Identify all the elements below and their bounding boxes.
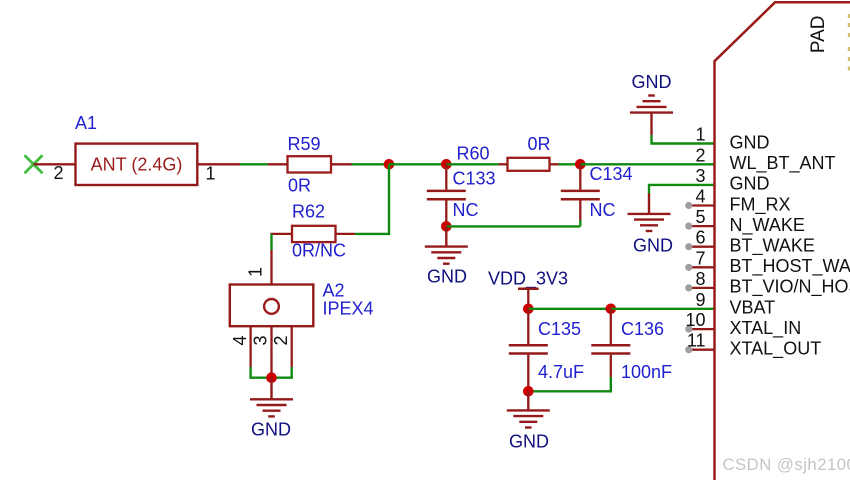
junction E dot (A2 ground) [266, 372, 277, 383]
capacitor C135 bottom lead [527, 355, 529, 392]
junction F dot (C135 top) [523, 304, 534, 315]
wire inverted ground to pin 1 [652, 135, 715, 144]
svg-text:GND: GND [632, 72, 672, 92]
pin 8 stub [689, 287, 715, 289]
junction H dot (C135 bottom) [523, 386, 534, 397]
svg-text:GND: GND [251, 420, 291, 440]
svg-text:CSDN @sjh2100: CSDN @sjh2100 [723, 455, 850, 474]
svg-text:VDD_3V3: VDD_3V3 [488, 269, 568, 290]
capacitor C136 bottom lead [610, 355, 612, 377]
svg-text:WL_BT_ANT: WL_BT_ANT [730, 153, 836, 174]
svg-text:3: 3 [695, 166, 705, 186]
junction B dot (C133 top) [441, 159, 452, 170]
wire C136 top to pin 9 VBAT [611, 308, 715, 310]
pin 10 unconnected dot [685, 326, 692, 333]
svg-text:2: 2 [271, 335, 291, 345]
junction D dot (C133 bottom) [441, 221, 452, 232]
svg-text:PAD: PAD [808, 15, 829, 53]
svg-text:NC: NC [590, 200, 616, 220]
power port VDD_3V3 stem [527, 289, 529, 309]
svg-text:N_WAKE: N_WAKE [730, 215, 805, 236]
wire R60 to junction C [559, 163, 581, 165]
svg-text:10: 10 [685, 310, 705, 330]
capacitor C133 bottom lead [445, 201, 447, 227]
svg-text:0R: 0R [528, 134, 551, 154]
pin 6 unconnected dot [685, 243, 692, 250]
wire junction A to junction B [389, 163, 446, 165]
svg-text:BT_WAKE: BT_WAKE [730, 236, 815, 257]
svg-text:C133: C133 [453, 169, 496, 189]
svg-text:4: 4 [230, 335, 250, 345]
junction A dot [384, 159, 395, 170]
svg-text:BT_VIO/N_HOST: BT_VIO/N_HOST [730, 277, 850, 298]
pin 8 unconnected dot [685, 284, 692, 291]
wire pin 3 to ground [649, 185, 715, 194]
svg-text:9: 9 [695, 290, 705, 310]
svg-text:GND: GND [633, 235, 673, 255]
svg-text:3: 3 [251, 335, 271, 345]
svg-text:7: 7 [695, 248, 705, 268]
antenna A1 pin 1 [197, 163, 241, 165]
svg-text:NC: NC [453, 200, 479, 220]
capacitor C133 plates [427, 191, 466, 199]
capacitor C135 top lead [527, 309, 529, 344]
resistor R59 body [288, 156, 332, 172]
ground symbol for pin 3 [628, 194, 671, 232]
wire C136 bottom to C135 bottom [528, 377, 611, 391]
svg-text:100nF: 100nF [621, 362, 672, 382]
pin 6 stub [689, 246, 715, 248]
wire A1 pin1 to R59 [240, 163, 268, 165]
svg-text:11: 11 [687, 331, 706, 351]
svg-text:VBAT: VBAT [730, 298, 776, 318]
svg-text:4.7uF: 4.7uF [538, 362, 584, 382]
connector A2 pin 2 [291, 326, 293, 367]
antenna A1 pin 2 [34, 163, 76, 165]
connector A2 circle [264, 299, 279, 314]
svg-text:XTAL_OUT: XTAL_OUT [730, 339, 822, 360]
wire R62 to junction A vertical [355, 164, 389, 234]
pin 4 unconnected dot [685, 202, 692, 209]
capacitor C134 plates [561, 191, 600, 199]
svg-text:ANT (2.4G): ANT (2.4G) [91, 155, 183, 175]
wire R59 to junction A [352, 163, 390, 165]
svg-text:C135: C135 [538, 319, 581, 339]
wire C134 bottom to ground net [579, 220, 581, 226]
pin 10 stub [689, 328, 715, 330]
svg-text:R59: R59 [288, 134, 321, 154]
svg-text:1: 1 [246, 267, 266, 277]
svg-text:C136: C136 [621, 319, 664, 339]
svg-text:BT_HOST_WAKE: BT_HOST_WAKE [730, 256, 850, 277]
inverted ground symbol above pin 1 [630, 96, 673, 136]
svg-text:0R: 0R [288, 176, 311, 196]
IC U1 body outline (PAD module) [715, 2, 850, 480]
pin 5 stub [689, 225, 715, 227]
svg-text:A1: A1 [75, 113, 97, 133]
svg-text:8: 8 [695, 269, 705, 289]
resistor R60 right pin [550, 163, 559, 165]
pin 7 stub [689, 266, 715, 268]
resistor R62 right pin [336, 233, 356, 235]
no-ERC marker X on ANT pin 2 [25, 155, 43, 173]
connector A2 pin 3 [270, 326, 272, 373]
ground symbol under C133 [425, 226, 468, 263]
svg-text:XTAL_IN: XTAL_IN [730, 318, 802, 339]
wire junction C to pin 2 WL_BT_ANT [580, 163, 714, 165]
capacitor C134 bottom lead [579, 201, 581, 221]
ground symbol under A2 [250, 378, 293, 417]
wire junction B to R60 [446, 163, 498, 165]
pin 4 stub [689, 204, 715, 206]
wire VDD to C136 top [528, 308, 611, 310]
resistor R60 body [508, 158, 550, 171]
svg-text:4: 4 [695, 187, 705, 207]
capacitor C133 top lead [445, 164, 447, 189]
svg-text:R62: R62 [292, 201, 325, 221]
connector A2 pin 1 [270, 250, 272, 285]
antenna A1 body [76, 144, 198, 185]
svg-text:5: 5 [695, 207, 705, 227]
ground symbol under C135 [507, 391, 550, 427]
connector A2 body [230, 285, 313, 327]
pin 5 unconnected dot [685, 223, 692, 230]
capacitor C134 top lead [579, 164, 581, 189]
junction C dot (C134 top) [575, 159, 586, 170]
capacitor C135 plates [509, 345, 548, 353]
svg-text:R60: R60 [457, 144, 490, 164]
clipped yellow parameter text at right edge [848, 14, 850, 71]
connector A2 pin 4 [249, 326, 251, 367]
resistor R59 right pin [331, 163, 352, 165]
svg-text:GND: GND [730, 174, 770, 194]
wire A2 pins to ground junction [251, 367, 292, 378]
svg-text:2: 2 [695, 145, 705, 165]
resistor R60 left pin [499, 163, 508, 165]
resistor R62 left pin [270, 233, 292, 235]
svg-text:GND: GND [427, 267, 467, 287]
svg-text:A2: A2 [323, 281, 345, 301]
pin 7 unconnected dot [685, 264, 692, 271]
capacitor C136 plates [591, 345, 630, 353]
svg-text:6: 6 [695, 228, 705, 248]
svg-text:1: 1 [695, 125, 705, 145]
svg-text:C134: C134 [590, 164, 633, 184]
junction G dot (C136 top) [606, 304, 617, 315]
wire C133 bottom to C134 bottom [446, 225, 580, 227]
resistor R62 body [292, 226, 336, 242]
power port VDD_3V3 bar [518, 287, 539, 290]
svg-text:IPEX4: IPEX4 [323, 299, 374, 319]
pin 11 unconnected dot [685, 346, 692, 353]
pin 11 stub [689, 349, 715, 351]
svg-text:FM_RX: FM_RX [730, 194, 791, 215]
svg-text:1: 1 [206, 163, 216, 183]
svg-text:0R/NC: 0R/NC [292, 241, 346, 261]
wire R62 left to A2 pin 1 [270, 234, 272, 250]
svg-text:GND: GND [509, 432, 549, 452]
resistor R59 left pin [268, 163, 288, 165]
capacitor C136 top lead [610, 309, 612, 344]
svg-text:2: 2 [54, 163, 64, 183]
svg-text:GND: GND [730, 133, 770, 153]
